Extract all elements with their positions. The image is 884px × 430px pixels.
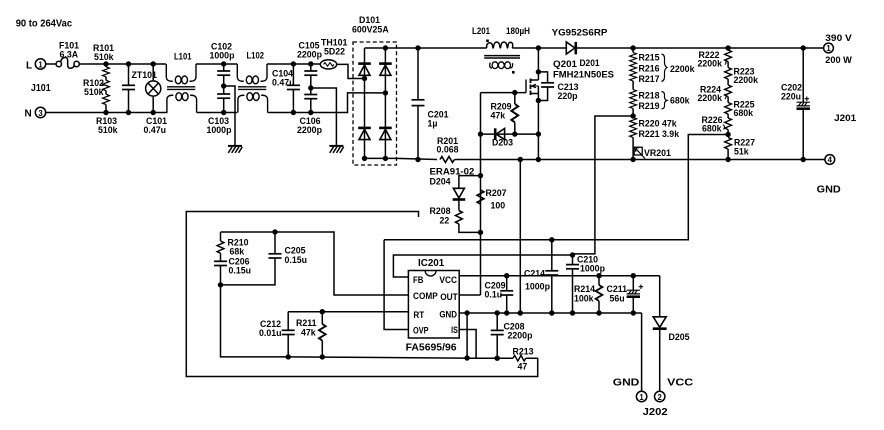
wire L101 to C103 (bottom) <box>197 112 238 114</box>
wire bottom rail to output pin 4 <box>633 159 825 161</box>
svg-text:390 V: 390 V <box>825 33 852 43</box>
svg-text:R218: R218 <box>639 91 660 101</box>
svg-text:YG952S6RP: YG952S6RP <box>552 27 608 37</box>
resistor R223 2200k <box>725 67 758 86</box>
capacitor C214 1000p <box>524 240 558 313</box>
junction dots C214 <box>549 237 554 242</box>
svg-text:680k: 680k <box>670 96 690 106</box>
junction dots C211 <box>631 273 636 278</box>
wire gate drive vertical (OUT to gate) <box>480 93 482 295</box>
svg-text:Q201: Q201 <box>553 59 577 69</box>
resistor R224 2200k <box>698 85 732 104</box>
svg-text:600V25A: 600V25A <box>352 25 389 35</box>
wire DC- bottom rail bridge to R201 <box>397 158 437 159</box>
fuse F101 6.3A <box>56 41 79 69</box>
svg-text:D201: D201 <box>580 58 600 68</box>
svg-text:OUT: OUT <box>440 292 458 303</box>
MOSFET Q201 FMH21N50ES <box>526 48 614 160</box>
junction dot FB tap (R219/R220) <box>630 113 635 118</box>
wire C105/C106 midpoint to earth <box>311 88 337 146</box>
resistor R214 100k <box>574 276 602 313</box>
resistor R226 680k <box>702 115 732 135</box>
svg-text:180µH: 180µH <box>506 26 530 36</box>
output terminal J201 pin 1 (390V) <box>824 33 853 65</box>
svg-text:51k: 51k <box>734 147 749 157</box>
svg-text:FA5695/96: FA5695/96 <box>406 343 457 354</box>
wire top input rail (L) <box>106 63 166 65</box>
svg-text:200 W: 200 W <box>825 55 852 65</box>
junction dots C209 <box>504 273 509 278</box>
wire FB tap to IC (right portion) <box>573 116 633 254</box>
boost diode D201 YG952S6RP <box>552 27 608 54</box>
junction dots RT network <box>320 309 325 314</box>
wire bottom rail to bridge AC input 2 <box>311 93 386 113</box>
resistor R209 47k <box>491 93 519 135</box>
svg-text:100: 100 <box>491 201 506 211</box>
svg-text:1: 1 <box>38 60 43 69</box>
connector J101 pin 3 (N) <box>25 107 46 119</box>
junction dot C210 top / FB line <box>570 252 575 257</box>
svg-text:47: 47 <box>518 362 528 372</box>
wire bottom input rail (N) <box>46 112 168 114</box>
resistor R227 51k <box>725 138 755 160</box>
junction dots R214 <box>596 273 601 278</box>
bridge diode lower-left <box>358 128 371 140</box>
capacitor C103 1000p <box>207 86 233 135</box>
resistor R213 47 (in-line) <box>513 347 534 372</box>
capacitor C206 0.15u <box>214 253 251 285</box>
wire IS pin elbow <box>459 330 477 359</box>
thermistor TH101 5D22 <box>311 38 348 70</box>
junction dot left divider bottom <box>630 157 635 162</box>
svg-text:3: 3 <box>38 109 43 118</box>
wire bottom rail R201 to right <box>454 159 633 161</box>
brace and value 2200k for R215-R217 <box>662 54 695 82</box>
diode D205 <box>653 317 690 392</box>
wire OVP tap to IC <box>384 135 728 240</box>
resistor R215 2200k (left divider) <box>630 48 660 63</box>
junction dots C105/C106 <box>308 61 313 66</box>
svg-text:FMH21N50ES: FMH21N50ES <box>553 70 614 80</box>
svg-text:C205: C205 <box>285 246 306 256</box>
svg-text:VR201: VR201 <box>644 148 671 158</box>
junction dots R101 top / R103 bottom <box>103 61 108 66</box>
wire fuse to top rail <box>79 63 106 65</box>
svg-text:R220 47k: R220 47k <box>639 119 677 129</box>
wire D201 to output chains <box>576 47 823 49</box>
svg-text:510k: 510k <box>98 125 118 135</box>
svg-text:VCC: VCC <box>439 275 457 286</box>
svg-text:68k: 68k <box>230 247 245 257</box>
svg-text:2200p: 2200p <box>508 331 534 341</box>
svg-text:0.15u: 0.15u <box>285 255 308 265</box>
svg-text:L101: L101 <box>174 52 192 62</box>
capacitor C210 1000p <box>566 255 606 314</box>
resistor R208 22 <box>430 199 481 232</box>
svg-text:L: L <box>26 61 32 72</box>
svg-text:R217: R217 <box>639 74 660 84</box>
svg-text:D205: D205 <box>669 332 690 342</box>
junction dot sense rail at GND row <box>518 310 523 315</box>
junction dots top rail (output side) <box>630 45 635 50</box>
junction dots bottom rail <box>518 157 523 162</box>
wire VCC pin row <box>459 275 660 277</box>
junction dots ZT101 <box>151 61 156 66</box>
resistor R102 510k <box>83 78 109 97</box>
wire FB pin to feedback line <box>393 255 573 277</box>
resistor R103 510k <box>96 94 118 135</box>
svg-text:56u: 56u <box>610 294 625 304</box>
svg-text:680k: 680k <box>702 124 722 134</box>
resistor R210 68k <box>217 232 249 257</box>
resistor R225 680k <box>725 100 755 119</box>
electrolytic capacitor C202 220u <box>781 48 810 160</box>
svg-text:1000p: 1000p <box>580 264 606 274</box>
svg-text:J101: J101 <box>31 83 51 94</box>
svg-text:D204: D204 <box>430 177 451 187</box>
resistor R216 2200k <box>630 62 660 74</box>
junction dot C202 bottom <box>801 157 806 162</box>
wire gate-clamp row (D203/R209/source) <box>481 133 539 135</box>
svg-text:4: 4 <box>828 156 833 165</box>
svg-text:D101: D101 <box>359 15 380 25</box>
junction dots gate drive network <box>478 173 483 178</box>
bridge left leg wire <box>364 48 366 158</box>
brace and value 680k for R218/R219 <box>662 92 690 110</box>
svg-text:J202: J202 <box>643 407 668 418</box>
wire GND pin row <box>459 312 642 314</box>
wire IS return row <box>288 357 476 358</box>
svg-text:2200k: 2200k <box>698 59 723 69</box>
wire VCC row to D205 <box>659 276 661 317</box>
svg-text:0.47u: 0.47u <box>144 125 167 135</box>
svg-text:510k: 510k <box>84 87 104 97</box>
svg-text:1: 1 <box>826 44 831 53</box>
junction dots bridge <box>362 76 367 81</box>
svg-text:1000p: 1000p <box>210 51 236 61</box>
junction dots C102/C103 <box>221 61 226 66</box>
resistor R207 100 <box>477 188 507 211</box>
svg-text:1000p: 1000p <box>525 282 551 292</box>
junction dot C208 bottom <box>495 356 500 361</box>
svg-text:GND: GND <box>613 378 640 389</box>
wire L101 to C102 (top) <box>196 63 237 65</box>
svg-text:1000p: 1000p <box>207 125 233 135</box>
svg-text:0.068: 0.068 <box>437 145 459 155</box>
junction dots C201 <box>415 45 420 50</box>
capacitor C208 2200p <box>491 313 533 358</box>
junction dot drain/top rail <box>536 45 541 50</box>
wire GND row to J202 pin 1 <box>641 313 643 391</box>
svg-text:C211: C211 <box>607 284 628 294</box>
wire L terminal to fuse <box>46 63 56 65</box>
wire TH101 to bridge AC input 1 <box>337 64 365 78</box>
svg-text:0.15u: 0.15u <box>229 266 252 276</box>
surge absorber ZT101 <box>132 64 161 113</box>
resistor R217 2200k <box>630 72 660 90</box>
capacitor C209 0.1u <box>485 276 514 313</box>
svg-text:47k: 47k <box>491 111 506 121</box>
bridge diode upper-left <box>358 64 371 76</box>
wire IS row to R213 <box>476 357 513 359</box>
resistor R221 3.9k <box>630 128 680 159</box>
snubber capacitor C213 220p <box>538 72 578 101</box>
resistor R220 47k <box>630 118 677 129</box>
svg-text:R214: R214 <box>574 284 595 294</box>
wire L102 to C104 (bottom) <box>268 112 311 114</box>
svg-text:2200k: 2200k <box>698 93 723 103</box>
wire sense rail to GND row <box>519 160 521 314</box>
svg-text:220u: 220u <box>781 92 801 102</box>
junction dot gate/R209 <box>512 90 517 95</box>
junction dots C104 <box>291 61 296 66</box>
svg-text:1: 1 <box>639 393 644 402</box>
wire COMP network to IS return row <box>221 285 289 357</box>
junction dot GND stub top <box>464 310 469 315</box>
common-mode choke L102 <box>237 51 267 113</box>
capacitor C106 2200p <box>297 88 323 135</box>
electrolytic capacitor C211 56u <box>607 276 644 313</box>
wire gate row <box>481 92 527 94</box>
inductor L201 180uH <box>472 26 530 74</box>
wire DC+ rail bridge to L201 <box>397 47 487 49</box>
svg-text:5D22: 5D22 <box>324 47 345 57</box>
bridge top wire <box>365 47 397 49</box>
capacitor C101 0.47u <box>122 64 167 135</box>
connector J202 pin 2 <box>655 391 665 402</box>
ground (C102/C103 midpoint) <box>228 146 242 153</box>
svg-text:GND: GND <box>439 310 457 321</box>
ground (C105/C106 midpoint) <box>329 146 343 153</box>
svg-text:100k: 100k <box>574 294 594 304</box>
diode D204 ERA91-02 <box>430 167 481 200</box>
connector J202 pin 1 <box>636 391 646 402</box>
svg-text:680k: 680k <box>734 108 754 118</box>
capacitor C102 1000p <box>210 42 236 87</box>
svg-text:N: N <box>25 109 32 120</box>
svg-text:C214: C214 <box>524 269 545 279</box>
svg-text:R221 3.9k: R221 3.9k <box>639 129 680 139</box>
junction dot GND stub on IS row <box>464 355 469 360</box>
wire RT pin to timing network <box>288 311 408 313</box>
capacitor C205 0.15u <box>221 232 308 285</box>
resistor R201 0.068 (in-line bottom rail) <box>437 136 459 162</box>
output terminal J201 pin 4 (GND) <box>825 155 835 165</box>
wire OVP pin vertical <box>384 240 408 330</box>
junction dot C210 bottom <box>570 310 575 315</box>
svg-text:510k: 510k <box>94 52 114 62</box>
wire OUT pin to gate drive <box>459 294 481 296</box>
diode D203 <box>492 128 513 147</box>
resistor R218 680k <box>630 90 660 101</box>
common-mode choke L101 <box>166 52 196 113</box>
trimmer VR201 <box>634 147 671 158</box>
svg-text:R208: R208 <box>430 206 451 216</box>
junction dot drain node (C213 tap) <box>536 69 541 74</box>
bridge diode lower-right <box>379 128 392 140</box>
svg-text:R219: R219 <box>639 101 660 111</box>
svg-text:0.1u: 0.1u <box>485 290 503 300</box>
capacitor C212 0.01u <box>259 312 295 357</box>
IC201 FA5695/96 control IC <box>406 258 460 354</box>
wire C102/C103 midpoint to earth <box>224 86 235 146</box>
svg-text:J201: J201 <box>834 113 856 123</box>
wire GND pin stub down to IS row <box>466 313 468 358</box>
junction dot OVP tap (R226/R227) <box>725 132 730 137</box>
bridge diode upper-right <box>379 64 392 76</box>
svg-text:22: 22 <box>440 216 450 226</box>
svg-text:RT: RT <box>413 310 424 321</box>
bridge rectifier D101 600V25A (dashed outline) <box>352 15 397 165</box>
svg-text:IS: IS <box>451 325 458 336</box>
svg-text:R213: R213 <box>513 347 534 357</box>
wire R213 to sense loop <box>186 212 537 377</box>
svg-text:0.01u: 0.01u <box>259 328 282 338</box>
svg-text:COMP: COMP <box>413 291 438 302</box>
junction dots C101 <box>126 61 131 66</box>
svg-text:FB: FB <box>413 275 423 286</box>
svg-text:2200k: 2200k <box>670 64 695 74</box>
junction dot C208 top <box>495 310 500 315</box>
svg-text:L102: L102 <box>247 51 265 61</box>
resistor R222 2200k (right divider) <box>698 48 732 69</box>
resistor R101 510k <box>93 43 114 80</box>
svg-text:GND: GND <box>817 185 841 196</box>
svg-text:2200p: 2200p <box>297 50 323 60</box>
junction dots COMP network <box>272 229 277 234</box>
svg-text:R207: R207 <box>486 188 507 198</box>
wire L102 to C104 (top) <box>267 63 311 65</box>
capacitor C201 1u <box>412 48 449 160</box>
junction dot C213 bottom / source <box>536 98 541 103</box>
svg-text:R211: R211 <box>296 318 317 328</box>
svg-text:2200k: 2200k <box>734 75 759 85</box>
capacitor C104 0.47u <box>272 64 300 113</box>
svg-text:90 to 264Vac: 90 to 264Vac <box>16 18 73 29</box>
svg-text:VCC: VCC <box>667 378 693 389</box>
wire COMP pin to compensation network <box>221 232 409 295</box>
junction dot right divider bottom <box>725 157 730 162</box>
capacitor C105 2200p <box>297 41 323 89</box>
svg-text:R216: R216 <box>639 64 660 74</box>
wire L201 to D201 <box>512 47 565 49</box>
svg-text:L201: L201 <box>472 26 490 36</box>
resistor R211 47k <box>296 312 326 357</box>
svg-text:1µ: 1µ <box>428 119 438 129</box>
connector J101 pin 1 (L) <box>26 59 46 72</box>
bridge right leg wire <box>384 48 386 158</box>
svg-text:47k: 47k <box>301 328 316 338</box>
svg-text:220p: 220p <box>558 91 579 101</box>
svg-text:IC201: IC201 <box>418 258 445 269</box>
resistor R219 680k <box>630 99 660 116</box>
bridge bottom wire <box>365 157 397 159</box>
svg-text:R215: R215 <box>639 53 660 63</box>
svg-text:2200p: 2200p <box>297 125 323 135</box>
svg-text:2: 2 <box>658 393 663 402</box>
svg-text:OVP: OVP <box>413 325 429 336</box>
junction dots gate-clamp row <box>478 131 483 136</box>
